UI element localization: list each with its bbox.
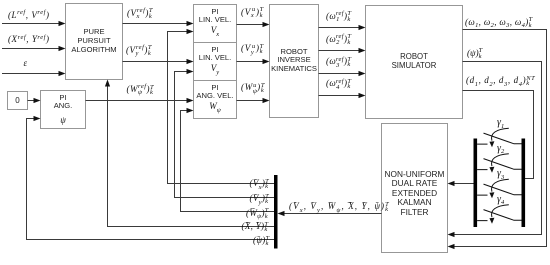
wire: input epsilon [2, 73, 60, 75]
wire: omega4 ref to simulator [319, 95, 360, 97]
arrowhead: omega3 into simulator [359, 71, 366, 76]
wire: psi hat feedback [27, 119, 275, 240]
label: Vx ref k T [127, 9, 153, 23]
label: gamma4 [497, 195, 504, 205]
label: Vy hat k T [250, 194, 270, 208]
wire: Vx hat feedback [168, 32, 275, 184]
label: Vx hat k T [250, 179, 270, 193]
arrowhead: Vy ref into box2 [187, 59, 194, 64]
label: Lref Vref [8, 11, 50, 21]
label: omega1 ref k T [326, 12, 351, 26]
block: robot simulator [366, 6, 463, 119]
arrowhead: psi loop into kalman [448, 232, 455, 237]
wire: kalman estimate output to bus [285, 213, 382, 215]
text: W psi math [194, 102, 237, 112]
switch 1 contacts and blade [477, 133, 521, 144]
arrowhead: gamma4 arc [489, 218, 494, 224]
wire: Vy hat feedback [175, 72, 275, 198]
block: pure pursuit algorithm [66, 4, 123, 80]
text: pure pursuit [66, 28, 123, 54]
arrowhead: Vx ref into box1 [187, 21, 194, 26]
label: Vy u k T [241, 44, 264, 58]
text: PI box3 [194, 84, 237, 99]
block: PI ang vel Wpsi [194, 81, 237, 119]
text: robot simulator [366, 53, 463, 70]
sampler left bar [474, 139, 478, 228]
wire: input Lref Vref [2, 23, 60, 25]
text: PI ang [41, 94, 86, 110]
label: Xref Yref [8, 35, 50, 45]
arrowhead: omega4 into simulator [359, 93, 366, 98]
wire: zero to PI ang [28, 100, 35, 102]
wire: omega2 ref to simulator [319, 50, 360, 52]
block: PI lin vel Vy [194, 43, 237, 81]
arrowhead: W psi ref into box3 [187, 98, 194, 103]
switch 2 gamma arc [492, 154, 509, 166]
wire: W psi ref from PI ang to PI box3 [86, 100, 188, 102]
arrowhead: omega2 into simulator [359, 48, 366, 53]
switch 3 gamma arc [492, 179, 509, 191]
arrowhead: gamma2 arc [489, 167, 494, 173]
block: PI lin vel Vx [194, 5, 237, 43]
wire: psi measured loop [455, 62, 542, 235]
wire: Vy ref to PI box2 [123, 61, 188, 63]
arrowhead: feedback into box2 [187, 69, 194, 74]
wire: input Xref Yref [2, 48, 60, 50]
wire: d measurements to sampler [463, 91, 534, 179]
text: inverse kinematics [270, 48, 319, 74]
wire: PI box3 output to kinematics [237, 100, 264, 102]
arrowhead: gamma3 arc [489, 192, 494, 198]
label: gamma3 [497, 169, 504, 179]
label: psi hat k T [253, 236, 269, 250]
wire: omega1 ref to simulator [319, 27, 360, 29]
text: kalman filter [382, 170, 448, 218]
arrowhead: XY hat into PP bottom [105, 80, 110, 87]
label: epsilon [24, 59, 28, 68]
switch 1 gamma arc [492, 128, 509, 140]
label: omega3 ref k T [326, 57, 351, 71]
wire: omega3 ref to simulator [319, 73, 360, 75]
arrowhead: zero into PI ang [34, 98, 41, 103]
text: PI box2 [194, 46, 237, 61]
arrowhead: feedback into box3 [187, 108, 194, 113]
bus bar estimates [274, 175, 278, 249]
text: Vx math [194, 26, 237, 36]
arrowhead: box1 out into kinematics [263, 22, 270, 27]
sampler right bar [522, 139, 526, 228]
wire: X Y hat feedback [108, 87, 275, 227]
label: psi k T [467, 49, 482, 63]
block: kalman filter [382, 124, 448, 253]
text: Vy math [194, 64, 237, 74]
label: XY hat k T [242, 222, 269, 236]
block: PI ang psi [41, 91, 86, 129]
block: zero reference [8, 92, 28, 110]
wire: sampler to kalman [455, 183, 474, 185]
text: psi math [41, 116, 86, 125]
wire: PI box2 output to kinematics [237, 61, 264, 63]
wire: Vx ref to PI box1 [123, 23, 188, 25]
arrowhead: gamma1 arc [489, 141, 494, 147]
arrowhead: box3 out into kinematics [263, 98, 270, 103]
switch 4 contacts and blade [477, 210, 521, 221]
label: Vx u k T [241, 8, 264, 22]
arrowhead: Xref Yref into PP [59, 46, 66, 51]
wire: W psi hat feedback [181, 111, 275, 212]
label: estimate vector k T [289, 202, 390, 216]
arrowhead: box2 out into kinematics [263, 59, 270, 64]
wire: omega measured loop [455, 30, 547, 247]
sampler switches [477, 128, 521, 220]
wire: PI box1 output to kinematics [237, 24, 264, 26]
arrowhead: sampler into kalman [448, 181, 455, 186]
arrowhead: feedback into box1 [187, 29, 194, 34]
arrowhead: epsilon into PP [59, 71, 66, 76]
label: gamma2 [497, 144, 504, 154]
label: omega2 ref k T [326, 35, 351, 49]
text: zero [8, 97, 28, 105]
label: W psi hat k T [246, 209, 269, 223]
arrowhead: omega loop into kalman [448, 244, 455, 249]
switch 3 contacts and blade [477, 184, 521, 195]
label: d vector k NT [466, 76, 535, 90]
label: gamma1 [497, 118, 504, 128]
label: omega4 ref k T [326, 79, 351, 93]
text: PI box1 [194, 8, 237, 23]
label: omega vector k T [465, 18, 533, 32]
arrowhead: omega1 into simulator [359, 25, 366, 30]
arrowhead: psi hat into PI ang [34, 116, 41, 121]
switch 4 gamma arc [492, 205, 509, 217]
label: Vy ref k T [126, 46, 152, 60]
block: robot inverse kinematics [270, 5, 319, 118]
arrowhead: Lref Vref into PP [59, 21, 66, 26]
label: W psi u k T [241, 83, 265, 97]
arrowhead: estimate into bus bar [278, 211, 285, 216]
label: W psi ref k T [127, 85, 155, 99]
switch 2 contacts and blade [477, 159, 521, 170]
